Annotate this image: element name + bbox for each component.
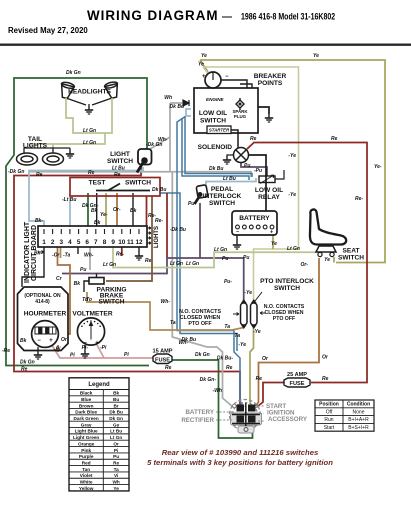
svg-text:Pink: Pink: [81, 448, 91, 453]
svg-text:Pu: Pu: [244, 163, 250, 169]
svg-text:TEST: TEST: [89, 180, 106, 187]
wire Dk Bu engine to low oil relay: [185, 116, 252, 177]
wire Ye inner: [203, 67, 299, 303]
tail lights ground: [66, 150, 74, 158]
header separator line: [0, 44, 411, 46]
svg-text:PTO OFF: PTO OFF: [273, 316, 295, 322]
solenoid: [234, 148, 249, 163]
engine box: [194, 88, 258, 133]
pedal interlock switch toggle: [195, 185, 209, 204]
svg-text:Lt Bu: Lt Bu: [223, 176, 236, 182]
svg-text:—: —: [222, 12, 232, 23]
ignition terminals: [237, 405, 256, 423]
svg-text:Bk: Bk: [91, 208, 98, 214]
svg-text:Lt Gn: Lt Gn: [287, 246, 300, 252]
svg-text:Dk Bu-: Dk Bu-: [217, 356, 233, 362]
spark plug: [236, 98, 244, 110]
battery cable to solenoid: [249, 155, 267, 211]
svg-text:Dk Gn: Dk Gn: [109, 416, 123, 421]
voltmeter ground: [84, 345, 86, 350]
wire Wh light switch to engine diode: [150, 103, 182, 149]
ignition switch body: [231, 413, 262, 425]
svg-text:PTO INTERLOCK: PTO INTERLOCK: [260, 278, 314, 285]
svg-text:Ye-: Ye-: [374, 164, 382, 170]
svg-text:Re: Re: [331, 136, 338, 142]
svg-text:11: 11: [127, 239, 134, 246]
svg-text:Wh: Wh: [113, 479, 120, 484]
headlight right lamp: [104, 81, 120, 99]
wire Re board pin10 stub: [121, 247, 123, 256]
svg-text:-Pu: -Pu: [254, 168, 262, 174]
svg-text:Ta: Ta: [114, 467, 120, 472]
wire Dk Gn fuse to ignition: [171, 360, 253, 438]
svg-text:Wh-: Wh-: [84, 253, 94, 259]
svg-text:SEAT: SEAT: [342, 248, 359, 255]
svg-text:Start: Start: [324, 425, 335, 431]
relay right wire: [275, 170, 284, 179]
svg-text:5: 5: [77, 239, 81, 246]
svg-text:9: 9: [111, 239, 115, 246]
wire Wh vertical to ignition: [172, 171, 233, 407]
wire Bk board ground stub: [138, 247, 140, 252]
svg-text:Bu: Bu: [113, 397, 119, 402]
wire Br test area to parking brake: [106, 196, 152, 281]
svg-text:Lt Gn: Lt Gn: [214, 247, 227, 253]
svg-text:4: 4: [68, 239, 72, 246]
svg-text:INTERLOCK: INTERLOCK: [203, 193, 242, 200]
wire Re solenoid to right side and 25A fuse: [247, 143, 367, 383]
indicator light circuit board: [38, 226, 147, 247]
svg-text:SWITCH: SWITCH: [274, 285, 300, 292]
legend table: [69, 378, 129, 491]
svg-text:HOURMETER: HOURMETER: [24, 311, 67, 318]
low oil relay: [259, 176, 275, 183]
svg-text:Pi: Pi: [70, 353, 75, 359]
wire Re test box to board pin12: [146, 196, 148, 226]
wire Dk Bu engine to ignition: [177, 116, 244, 407]
svg-text:Pu: Pu: [222, 256, 228, 262]
svg-text:-Wh: -Wh: [213, 388, 222, 394]
svg-text:Purple: Purple: [79, 454, 94, 459]
svg-text:-Pi: -Pi: [100, 345, 107, 351]
svg-text:7: 7: [94, 239, 98, 246]
board title vertical: [24, 221, 38, 283]
wire Bk board pin1 to hourmeter: [22, 247, 44, 287]
svg-text:-Dk Gn: -Dk Gn: [8, 169, 24, 175]
board pin numbers: [42, 239, 143, 246]
svg-text:Ye: Ye: [113, 486, 119, 491]
svg-text:Ta: Ta: [170, 320, 176, 326]
starter to solenoid wire: [231, 130, 238, 148]
engine diode: [183, 100, 189, 106]
svg-text:+: +: [270, 230, 273, 236]
svg-text:ENGINE: ENGINE: [206, 97, 225, 102]
svg-text:Re: Re: [21, 367, 28, 373]
position condition table: [315, 400, 374, 431]
hourmeter bezel octagon: [18, 287, 69, 351]
seat outline: [310, 209, 346, 244]
svg-text:Bk-: Bk-: [34, 251, 42, 257]
wire Lt Bu test box to board pin4: [69, 196, 71, 226]
svg-text:B+I+A+R: B+I+A+R: [348, 417, 369, 423]
wire Ye outer diagonal to magneto: [200, 60, 208, 72]
svg-text:5 terminals with 3 key positio: 5 terminals with 3 key positions for bat…: [147, 458, 333, 467]
svg-text:LIGHT: LIGHT: [110, 151, 130, 158]
lights arrows: [147, 227, 151, 245]
svg-text:LOW OIL: LOW OIL: [199, 110, 227, 117]
svg-text:RELAY: RELAY: [258, 194, 280, 201]
svg-text:Ye: Ye: [201, 53, 207, 59]
svg-text:Position: Position: [319, 402, 339, 408]
board terminals: [44, 229, 139, 234]
svg-text:Vi: Vi: [114, 473, 118, 478]
wire Bk parking brake top stub: [96, 274, 98, 278]
hourmeter ground: [37, 347, 39, 351]
wire Lt Bu pedal switch to relay: [206, 178, 256, 186]
svg-text:+: +: [49, 338, 53, 344]
svg-text:ACCESSORY: ACCESSORY: [268, 416, 308, 423]
svg-text:Pi: Pi: [114, 448, 118, 453]
svg-text:White: White: [80, 479, 93, 484]
headlights ground: [85, 106, 93, 114]
tail light right: [43, 153, 64, 165]
board arrow: [38, 251, 44, 254]
wire Ye inner diagonal: [203, 67, 210, 76]
board bottom ground: [135, 252, 143, 260]
svg-text:Or-: Or-: [113, 207, 121, 213]
voltmeter needle: [89, 322, 92, 340]
wire Wh horizontal above test switch: [30, 103, 251, 177]
svg-text:Dk Gn: Dk Gn: [20, 360, 35, 366]
wire Or board pin2 to hourmeter: [58, 247, 71, 334]
svg-text:−: −: [236, 230, 239, 236]
svg-text:2: 2: [51, 239, 55, 246]
svg-text:-Ye: -Ye: [288, 192, 296, 198]
svg-text:12: 12: [135, 239, 143, 246]
svg-text:1: 1: [42, 239, 46, 246]
svg-text:Run: Run: [324, 417, 333, 423]
svg-text:Lt Bu: Lt Bu: [110, 429, 122, 434]
svg-text:414-8): 414-8): [35, 299, 50, 305]
svg-text:BREAKER: BREAKER: [254, 73, 287, 80]
svg-text:Bk: Bk: [130, 208, 137, 214]
svg-text:Dk Bu: Dk Bu: [182, 337, 196, 343]
svg-text:Bk: Bk: [113, 391, 119, 396]
wire Or seat switch to ignition: [256, 258, 319, 406]
svg-text:SWITCH: SWITCH: [338, 255, 364, 262]
wire Dk Bu test box to ignition: [160, 193, 237, 351]
svg-text:Re-: Re-: [116, 252, 124, 258]
svg-text:SWITCH: SWITCH: [98, 299, 124, 306]
svg-text:15 AMP: 15 AMP: [153, 349, 173, 355]
svg-text:3: 3: [60, 239, 64, 246]
svg-text:-Re: -Re: [2, 348, 10, 354]
test switch bar: [96, 184, 150, 191]
wire Lt Gn headlight bus to tail lights: [30, 133, 105, 148]
PTO interlock switch capsule: [241, 303, 258, 325]
wire Dk Gn main loop: [6, 78, 149, 366]
svg-text:Red: Red: [82, 460, 91, 465]
svg-text:LOW OIL: LOW OIL: [255, 187, 283, 194]
wire Wh board pin8 stub: [89, 247, 91, 270]
svg-text:-Ta: -Ta: [63, 253, 71, 259]
svg-text:Pi: Pi: [124, 352, 129, 358]
wire Lt Bu light switch run: [29, 167, 143, 226]
tail light left: [17, 153, 38, 165]
wire Ye seat stub: [333, 257, 335, 263]
svg-text:SOLENOID: SOLENOID: [198, 144, 233, 151]
svg-text:Re-: Re-: [355, 196, 363, 202]
svg-text:Lt Bu: Lt Bu: [112, 166, 125, 172]
svg-text:Lt Gn: Lt Gn: [103, 262, 116, 268]
wire Ye battery positive stub: [272, 234, 274, 249]
svg-text:-Ye: -Ye: [238, 342, 246, 348]
svg-text:Pu: Pu: [80, 267, 86, 273]
svg-text:Or: Or: [113, 441, 119, 446]
svg-text:Re: Re: [145, 258, 152, 264]
svg-text:Orange: Orange: [78, 441, 95, 446]
wire Ye test box to board pin8: [105, 193, 107, 226]
svg-text:Dk Gn: Dk Gn: [195, 352, 210, 358]
headlight ground wires: [66, 98, 112, 106]
svg-text:Ye: Ye: [324, 257, 330, 263]
svg-text:Bk: Bk: [74, 281, 81, 287]
wire Re left loop bottom to ignition: [14, 167, 240, 407]
svg-text:Lt Gn: Lt Gn: [83, 140, 96, 146]
svg-text:LIGHTS: LIGHTS: [23, 143, 48, 150]
parking brake left wire: [84, 281, 89, 292]
svg-text:Brown: Brown: [79, 403, 94, 408]
svg-text:PTO OFF: PTO OFF: [188, 321, 212, 327]
wire Bk test box to board pin11: [132, 193, 134, 226]
svg-text:-Ye: -Ye: [253, 329, 261, 335]
wire Or hourmeter stub: [57, 345, 59, 352]
svg-text:Ta: Ta: [224, 324, 230, 330]
svg-text:HEADLIGHTS: HEADLIGHTS: [68, 89, 111, 96]
svg-text:Pi-: Pi-: [82, 345, 89, 351]
wire Bk test box to board pin7: [96, 193, 98, 226]
ignition labels: [181, 403, 308, 424]
svg-text:FUSE: FUSE: [290, 381, 305, 387]
battery ground: [236, 235, 238, 241]
svg-text:SWITCH: SWITCH: [107, 158, 133, 165]
svg-text:BATTERY: BATTERY: [185, 409, 214, 416]
svg-text:Violet: Violet: [80, 473, 93, 478]
svg-text:Dk Bu: Dk Bu: [209, 166, 223, 172]
wire Bk board pin5 stub: [77, 247, 79, 254]
svg-text:Dk Gn-: Dk Gn-: [200, 377, 217, 383]
wire Ye outer top/right: [200, 60, 385, 263]
svg-text:Off: Off: [326, 409, 333, 415]
svg-text:POINTS: POINTS: [258, 80, 283, 87]
svg-text:Bk: Bk: [20, 338, 27, 344]
svg-text:Pu-: Pu-: [188, 201, 196, 207]
svg-text:Re: Re: [250, 136, 257, 142]
svg-text:1986 416-8 Model 31-16K802: 1986 416-8 Model 31-16K802: [241, 10, 335, 21]
hourmeter dial: [32, 321, 59, 348]
svg-text:Ye: Ye: [313, 53, 319, 59]
wire Dk Gn test switch to board pin6: [87, 193, 89, 226]
svg-text:Re: Re: [113, 460, 119, 465]
svg-text:BATTERY: BATTERY: [239, 215, 270, 222]
svg-text:RECTIFIER: RECTIFIER: [181, 417, 214, 424]
headlight left lamp: [58, 81, 74, 99]
svg-text:Ta: Ta: [234, 333, 240, 339]
svg-text:FUSE: FUSE: [155, 358, 170, 364]
svg-text:Dk Gn: Dk Gn: [66, 70, 81, 76]
svg-text:INDICATOR LIGHT: INDICATOR LIGHT: [24, 221, 31, 283]
wire Pu to PTO switch: [167, 258, 244, 303]
svg-text:Pu: Pu: [243, 255, 249, 261]
parking brake switch: [89, 278, 104, 285]
svg-text:Lt Gn: Lt Gn: [110, 435, 122, 440]
svg-text:Ye-: Ye-: [100, 212, 108, 218]
svg-text:LIGHTS: LIGHTS: [154, 226, 160, 248]
svg-text:8: 8: [103, 239, 107, 246]
svg-text:Light Blue: Light Blue: [75, 429, 98, 434]
svg-text:Ye: Ye: [271, 241, 277, 247]
svg-text:Legend: Legend: [88, 382, 110, 388]
svg-text:Lt Gn: Lt Gn: [83, 128, 96, 134]
svg-text:Lt Gn: Lt Gn: [186, 261, 199, 267]
svg-text:Re-: Re-: [155, 218, 163, 224]
svg-text:−: −: [225, 74, 229, 80]
svg-text:Dk Bu: Dk Bu: [109, 410, 123, 415]
svg-text:Pu: Pu: [113, 454, 119, 459]
wire Lt Gn seat switch run: [113, 247, 316, 268]
svg-text:Bk-: Bk-: [35, 218, 43, 224]
svg-text:Yellow: Yellow: [79, 486, 94, 491]
svg-text:None: None: [353, 409, 365, 415]
wire Pu solenoid to relay: [241, 163, 267, 176]
wire Or test box to board pin10: [116, 193, 118, 226]
svg-text:Gray: Gray: [81, 422, 92, 427]
svg-text:SWITCH: SWITCH: [125, 180, 151, 187]
svg-text:VOLTMETER: VOLTMETER: [72, 311, 112, 318]
svg-text:Re: Re: [226, 365, 233, 371]
voltmeter dial: [77, 318, 104, 345]
svg-text:−: −: [37, 338, 41, 344]
test switch box: [70, 178, 160, 197]
svg-text:Tan: Tan: [82, 467, 90, 472]
svg-text:-Lt Bu: -Lt Bu: [62, 197, 76, 203]
svg-text:6: 6: [85, 239, 89, 246]
svg-text:Wh-: Wh-: [158, 137, 168, 143]
wire Lt Gn headlight left drop: [66, 98, 112, 133]
tail lights bracket: [24, 148, 70, 153]
svg-text:+: +: [95, 341, 99, 347]
svg-text:+: +: [202, 74, 206, 80]
ignition switch rear view: [230, 400, 261, 431]
wire Re 25A fuse to ignition: [257, 383, 284, 408]
svg-text:Revised May 27, 2020: Revised May 27, 2020: [8, 26, 88, 35]
svg-text:-Or: -Or: [52, 253, 61, 259]
svg-text:Wh: Wh: [164, 95, 172, 101]
svg-text:Bk: Bk: [94, 220, 101, 226]
svg-text:Blue: Blue: [81, 397, 92, 402]
svg-text:Or-: Or-: [301, 262, 309, 268]
svg-text:PEDAL: PEDAL: [211, 186, 233, 193]
light switch toggle: [137, 149, 152, 173]
svg-text:Br: Br: [114, 403, 119, 408]
engine blue tab: [186, 109, 191, 116]
svg-text:SWITCH: SWITCH: [209, 200, 235, 207]
svg-text:Pu-: Pu-: [224, 279, 232, 285]
magneto: [205, 72, 221, 88]
svg-text:SWITCH: SWITCH: [200, 118, 226, 125]
svg-text:Black: Black: [80, 391, 93, 396]
solenoid ground: [227, 155, 233, 156]
wire Re test area vertical: [166, 193, 168, 258]
svg-text:PLUG: PLUG: [234, 114, 247, 119]
svg-text:Re: Re: [165, 365, 172, 371]
svg-text:WIRING DIAGRAM: WIRING DIAGRAM: [87, 8, 219, 23]
svg-text:To: To: [86, 297, 92, 303]
svg-text:Lt Gn: Lt Gn: [170, 261, 183, 267]
svg-text:25 AMP: 25 AMP: [287, 372, 307, 378]
starter box: [207, 126, 231, 134]
svg-text:Dark Blue: Dark Blue: [75, 410, 97, 415]
svg-text:Dk Bu: Dk Bu: [152, 187, 166, 193]
svg-text:Wh-: Wh-: [161, 299, 171, 305]
svg-text:STARTER: STARTER: [209, 128, 230, 133]
25 amp fuse: [284, 378, 310, 387]
svg-text:Rear view of # 103990 and 1112: Rear view of # 103990 and 111216 switche…: [162, 448, 319, 457]
battery: [232, 211, 277, 235]
breaker points bracket: [221, 80, 252, 88]
svg-text:Re: Re: [322, 376, 329, 382]
wire Pu pedal switch drop: [199, 203, 201, 258]
wire Pu lower bus: [62, 258, 167, 274]
wire Pi voltmeter to 15A fuse: [51, 344, 153, 358]
wire Ta parking brake to PTO switch: [87, 292, 244, 330]
svg-text:Re: Re: [88, 170, 95, 176]
svg-text:Ye: Ye: [198, 62, 204, 68]
svg-text:Re: Re: [256, 376, 263, 382]
seat switch: [316, 246, 336, 252]
svg-text:-Ye: -Ye: [244, 290, 252, 296]
15 amp fuse: [153, 354, 172, 364]
engine right ground wire: [258, 107, 269, 114]
svg-text:Re: Re: [36, 172, 43, 178]
svg-text:B+S+I+R: B+S+I+R: [348, 425, 369, 431]
svg-text:Gy: Gy: [113, 422, 120, 427]
svg-text:-Ye: -Ye: [288, 153, 296, 159]
hourmeter digits: [35, 327, 56, 334]
svg-text:-Dk Bu: -Dk Bu: [170, 227, 186, 233]
svg-text:Condition: Condition: [347, 402, 370, 408]
svg-text:Dark Green: Dark Green: [74, 416, 99, 421]
svg-text:10: 10: [118, 239, 126, 246]
wire Ye PTO to ignition: [250, 325, 254, 406]
svg-text:Dk Bu: Dk Bu: [170, 104, 184, 110]
wire Ta board pin3 down: [60, 247, 62, 258]
svg-text:Light Green: Light Green: [73, 435, 99, 440]
voltmeter tick dots: [81, 325, 83, 327]
svg-text:-Pi: -Pi: [54, 347, 61, 353]
